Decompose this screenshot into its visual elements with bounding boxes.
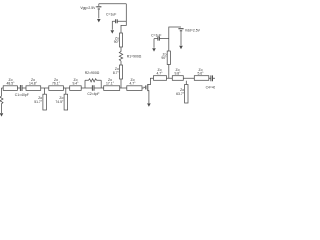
svg-text:5.6°: 5.6° [197,72,204,76]
svg-text:4.7°: 4.7° [156,72,163,76]
svg-text:Vdd=2.5V: Vdd=2.5V [185,29,201,33]
svg-text:C4=40pF: C4=40pF [206,86,215,90]
svg-text:48.5°: 48.5° [7,82,16,86]
svg-text:76.1°: 76.1° [52,82,61,86]
svg-text:R1=900Ω: R1=900Ω [127,54,142,58]
svg-text:C2=4pF: C2=4pF [87,92,99,96]
svg-text:R2=900Ω: R2=900Ω [85,71,100,75]
svg-text:C1=40pF: C1=40pF [15,93,29,97]
svg-text:17.1°: 17.1° [106,82,115,86]
svg-text:14.8°: 14.8° [29,82,38,86]
svg-text:C=1uF: C=1uF [106,13,116,17]
svg-text:90°: 90° [114,40,120,44]
svg-text:90°: 90° [161,56,167,60]
svg-text:9.8°: 9.8° [174,72,181,76]
svg-text:9.4°: 9.4° [72,82,79,86]
svg-text:51.7°: 51.7° [34,100,43,104]
svg-text:8.7°: 8.7° [113,71,120,75]
svg-text:4.7°: 4.7° [129,82,136,86]
svg-text:Vgg=2.5V: Vgg=2.5V [80,6,96,10]
svg-text:74.5°: 74.5° [55,100,64,104]
svg-text:63.7°: 63.7° [176,92,185,96]
svg-text:C=1uF: C=1uF [151,34,161,38]
